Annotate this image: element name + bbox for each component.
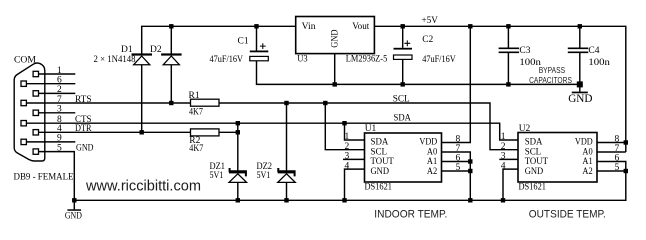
wire SCL: R1 to U2 pin2 <box>219 103 518 150</box>
svg-text:A1: A1 <box>582 157 593 167</box>
wire bottom gnd rail <box>74 162 626 201</box>
svg-text:DB9 - FEMALE: DB9 - FEMALE <box>14 173 74 183</box>
svg-text:R1: R1 <box>189 91 200 101</box>
pin 3 circle <box>33 110 38 115</box>
svg-text:C4: C4 <box>588 46 599 56</box>
node DZ1 gnd <box>236 198 240 202</box>
svg-text:U2: U2 <box>519 124 531 134</box>
wire U1 pin6 <box>442 161 471 163</box>
wire U2 pin7 <box>597 151 626 153</box>
wire D1 anode down to DTR <box>141 65 143 133</box>
svg-text:4K7: 4K7 <box>189 107 203 117</box>
svg-text:3: 3 <box>57 105 62 115</box>
wire U1 pin1 <box>345 123 365 140</box>
node U3 gnd <box>333 82 337 86</box>
wire DZ1 anode to gnd <box>237 183 239 201</box>
svg-text:C2: C2 <box>422 35 433 45</box>
svg-text:www.riccibitti.com: www.riccibitti.com <box>85 178 201 195</box>
svg-text:4: 4 <box>57 124 62 134</box>
pin 9 circle <box>21 139 26 144</box>
wire DB9 pin9 stub <box>26 141 75 143</box>
node C4 gnd big <box>577 81 583 87</box>
wire SDA/CTS: DB9 pin8 to U2 pin1 <box>26 123 518 140</box>
node C1/rail <box>254 24 258 28</box>
capacitor C2 <box>394 40 413 59</box>
capacitor C1 <box>250 43 268 61</box>
svg-text:INDOOR TEMP.: INDOOR TEMP. <box>374 209 447 221</box>
wire +5V rail: Vout to U2 pin7 <box>374 26 625 152</box>
diode D2 <box>161 53 182 64</box>
svg-text:7: 7 <box>456 144 461 154</box>
resistor R2 <box>191 129 220 136</box>
svg-text:7: 7 <box>57 95 62 105</box>
IC U1 box <box>365 133 442 182</box>
wire U1 pin5 <box>442 170 471 172</box>
node C3/rail <box>506 24 510 28</box>
wire DB9 pin6 stub <box>26 83 75 85</box>
pin 7 circle <box>21 100 26 105</box>
svg-text:BYPASS: BYPASS <box>539 66 565 75</box>
svg-text:U1: U1 <box>365 124 377 134</box>
svg-text:4: 4 <box>345 161 350 171</box>
svg-text:A0: A0 <box>427 147 438 157</box>
ground stub under C4 <box>579 84 581 91</box>
node C2/rail <box>401 24 405 28</box>
svg-text:A2: A2 <box>427 167 438 177</box>
wire U2 pin8 <box>597 142 626 144</box>
svg-text:1: 1 <box>57 66 62 76</box>
svg-text:5: 5 <box>456 163 461 173</box>
wire DB9 pin1 stub <box>39 73 76 75</box>
svg-text:Vin: Vin <box>302 22 316 32</box>
svg-text:LM2936Z-5: LM2936Z-5 <box>346 55 388 65</box>
svg-text:TOUT: TOUT <box>525 157 548 167</box>
wire C1 top <box>256 26 258 50</box>
node C4/rail <box>578 24 582 28</box>
svg-text:SCL: SCL <box>525 147 542 157</box>
resistor R1 <box>191 99 220 106</box>
svg-text:C3: C3 <box>519 46 530 56</box>
svg-text:D2: D2 <box>150 45 162 55</box>
wire RTS from DB9 pin7 to R1 <box>26 102 190 104</box>
svg-text:7: 7 <box>615 144 620 154</box>
svg-text:COM: COM <box>14 56 37 66</box>
svg-text:DS1621: DS1621 <box>365 183 393 193</box>
svg-text:6: 6 <box>456 154 461 164</box>
wire DB9 pin2 stub <box>39 92 76 94</box>
svg-text:6: 6 <box>615 154 620 164</box>
svg-text:TOUT: TOUT <box>371 157 394 167</box>
svg-text:A1: A1 <box>427 157 438 167</box>
capacitor C4 <box>568 48 589 52</box>
svg-text:U3: U3 <box>297 55 308 65</box>
wire U2 pin5 <box>597 170 626 172</box>
node DZ2 gnd <box>284 198 288 202</box>
svg-text:DS1621: DS1621 <box>519 183 547 193</box>
svg-text:CAPACITORS: CAPACITORS <box>529 76 572 85</box>
node U2 VDD <box>624 140 628 144</box>
svg-text:3: 3 <box>501 152 506 162</box>
wire DB9 pin5 GND down <box>39 152 75 201</box>
svg-text:+5V: +5V <box>422 16 439 26</box>
wire U1 pin2 <box>325 103 364 150</box>
svg-text:A2: A2 <box>582 167 593 177</box>
wire top rail left: D1 up to Vin <box>142 26 296 54</box>
pin 4 circle <box>33 130 38 135</box>
svg-text:9: 9 <box>57 134 62 144</box>
wire D2 anode down to RTS <box>170 65 172 103</box>
svg-text:5: 5 <box>57 143 62 153</box>
node DB9 gnd rail <box>72 198 76 202</box>
wire C2 bottom <box>402 59 404 84</box>
IC U2 box <box>518 133 597 183</box>
wire U2 pin4 to gnd <box>503 169 518 200</box>
svg-text:1: 1 <box>345 132 350 142</box>
wire U1 pin4 to gnd <box>345 169 365 200</box>
svg-text:2: 2 <box>345 142 350 152</box>
svg-text:6: 6 <box>57 76 62 86</box>
wire C3 bottom <box>507 53 509 85</box>
node DZ2 SCL <box>284 101 288 105</box>
svg-text:GND: GND <box>330 29 340 47</box>
svg-text:5V1: 5V1 <box>257 171 271 181</box>
pin 5 circle <box>33 149 38 154</box>
wire +5V down to U1 pin8 <box>442 26 471 142</box>
svg-text:SCL: SCL <box>371 147 388 157</box>
ground bar under DB9 <box>67 209 81 211</box>
svg-text:SDA: SDA <box>394 113 412 123</box>
wire U2 pin3 stub <box>499 158 518 160</box>
svg-text:SDA: SDA <box>525 138 543 148</box>
connector J1 DB9-FEMALE outline <box>14 63 45 161</box>
ground bar under C4 <box>572 92 588 94</box>
svg-text:8: 8 <box>456 135 461 145</box>
svg-text:GND: GND <box>568 91 593 105</box>
svg-text:VDD: VDD <box>419 138 437 148</box>
svg-text:2 × 1N4148: 2 × 1N4148 <box>94 55 136 65</box>
regulator U3 box <box>296 17 375 54</box>
zener DZ1 <box>229 168 247 182</box>
svg-text:47uF/16V: 47uF/16V <box>210 55 244 65</box>
wire DZ1 node vertical SDA to bar <box>237 123 239 171</box>
svg-text:SDA: SDA <box>371 138 389 148</box>
wire C2 top <box>402 26 404 48</box>
wire U1 pin7 down <box>442 152 471 200</box>
wire D2 cathode up <box>170 26 172 54</box>
node D2 RTS <box>169 101 173 105</box>
node U1 SCL branch <box>323 101 327 105</box>
pin 1 circle <box>33 71 38 76</box>
svg-text:DTR: DTR <box>75 124 92 134</box>
ground stub under DB9 <box>73 200 75 209</box>
pin 2 circle <box>33 91 38 96</box>
capacitor C3 <box>499 48 519 52</box>
svg-text:1: 1 <box>501 132 506 142</box>
node U1 A pins gnd <box>468 198 472 202</box>
svg-text:5V1: 5V1 <box>210 171 224 181</box>
node R2/DZ1 <box>236 130 240 134</box>
svg-text:GND: GND <box>371 167 390 177</box>
svg-text:8: 8 <box>615 135 620 145</box>
node U1 pin4 gnd <box>342 198 346 202</box>
zener DZ2 <box>278 168 296 182</box>
svg-text:5: 5 <box>615 163 620 173</box>
svg-text:2: 2 <box>57 85 62 95</box>
svg-text:C1: C1 <box>238 37 249 47</box>
node U1 VDD/rail <box>468 24 472 28</box>
node DZ1 SDA <box>236 121 240 125</box>
wire gnd mid rail: C1 bottom to C4 <box>257 61 580 84</box>
wire DB9 pin3 stub <box>39 112 76 114</box>
svg-text:47uF/16V: 47uF/16V <box>422 55 456 65</box>
svg-text:VDD: VDD <box>575 138 593 148</box>
svg-text:A0: A0 <box>582 147 593 157</box>
svg-text:Vout: Vout <box>352 22 369 32</box>
svg-text:SCL: SCL <box>393 94 410 104</box>
svg-text:2: 2 <box>501 142 506 152</box>
wire U3 GND pin <box>334 54 336 85</box>
node U1 A1 <box>468 159 472 163</box>
svg-text:GND: GND <box>76 143 94 153</box>
wire C3 top <box>507 26 509 48</box>
wire DTR: DB9 pin4 to R2 <box>39 131 191 133</box>
node D1 DTR <box>140 130 144 134</box>
svg-text:4: 4 <box>501 161 506 171</box>
node U1 A2 <box>468 169 472 173</box>
svg-text:D1: D1 <box>121 45 133 55</box>
node D2/rail <box>169 24 173 28</box>
wire U1 pin3 stub <box>343 158 365 160</box>
wire DZ2 vertical SCL to bar <box>286 103 288 171</box>
svg-text:RTS: RTS <box>75 95 92 105</box>
svg-text:GND: GND <box>525 167 544 177</box>
pin 8 circle <box>21 121 26 126</box>
svg-text:3: 3 <box>345 152 350 162</box>
svg-text:4K7: 4K7 <box>189 144 203 154</box>
svg-text:GND: GND <box>65 211 82 221</box>
diode D1 <box>132 53 153 64</box>
wire C4 bottom <box>579 53 581 85</box>
node U2 pin4 gnd <box>501 198 505 202</box>
node C2 gnd <box>401 82 405 86</box>
svg-text:100n: 100n <box>588 58 610 68</box>
node C3 gnd <box>506 82 510 86</box>
svg-text:OUTSIDE TEMP.: OUTSIDE TEMP. <box>529 209 606 221</box>
node U1 SDA branch <box>342 121 346 125</box>
pin 6 circle <box>21 81 26 86</box>
node U2 A2 <box>624 169 628 173</box>
wire C4 top <box>579 26 581 48</box>
wire R2 to DZ1 node <box>219 131 238 133</box>
wire DZ2 anode to gnd <box>286 183 288 201</box>
